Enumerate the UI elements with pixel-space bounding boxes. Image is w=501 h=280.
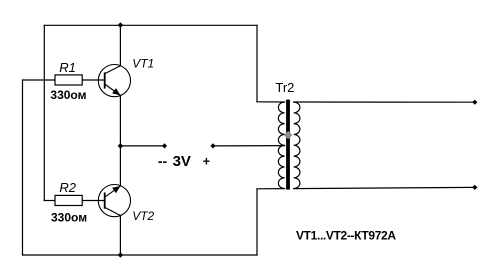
wire R2 left horizontal: [44, 200, 55, 202]
svg-text:+: +: [203, 155, 210, 169]
wire right vertical to Tr2 primary top: [256, 25, 258, 102]
transistor VT1 collector lead: [105, 66, 121, 74]
transistor VT1 base bar: [104, 72, 106, 88]
node grey junction on core: [284, 131, 293, 139]
wire R2 to VT2 base: [82, 200, 105, 202]
node output terminal top: [472, 100, 477, 105]
wire stub Tr2 primary bottom: [257, 188, 285, 190]
wire top horizontal (VT1 collector rail): [44, 24, 257, 26]
svg-text:--: --: [158, 153, 168, 169]
wire VT2 emitter vertical: [119, 146, 121, 186]
transformer Tr2 primary winding: [278, 102, 284, 189]
transistor VT2 body circle: [98, 185, 130, 217]
transistor VT2: [98, 185, 130, 217]
transistor VT1 emitter lead: [105, 84, 121, 96]
svg-text:VT1: VT1: [132, 57, 154, 71]
svg-text:330ом: 330ом: [51, 210, 87, 224]
transistor VT1 body circle: [98, 65, 130, 97]
transistor VT2 emitter lead: [105, 186, 121, 197]
wire secondary bottom output: [294, 187, 475, 188]
wire secondary top output: [294, 101, 475, 103]
wire stub Tr2 primary top: [257, 101, 285, 103]
resistor R2: [55, 195, 82, 205]
wire left vertical feedback (to R2): [43, 25, 45, 200]
node junction middle (emitters / battery): [118, 143, 124, 149]
node junction bottom (collector VT2 / rail): [118, 252, 124, 258]
wire R1 left horizontal: [23, 79, 56, 81]
transistor VT1 emitter arrow: [112, 88, 120, 95]
transistor VT2 emitter arrow: [112, 186, 120, 193]
wire right vertical from Tr2 primary bottom: [256, 189, 258, 255]
node junction top (collector VT1 / rail): [118, 22, 124, 28]
node output terminal bottom: [472, 185, 477, 190]
transistor VT1: [98, 65, 130, 97]
wire bottom horizontal (VT2 collector rail): [23, 254, 258, 256]
wire VT1 collector vertical: [119, 25, 121, 65]
transistor VT2 base bar: [104, 193, 106, 209]
transformer Tr2 core bar: [286, 100, 290, 190]
wire battery plus lead to Tr2 centre tap: [213, 145, 285, 147]
node battery minus terminal: [162, 143, 167, 148]
svg-text:3V: 3V: [173, 153, 191, 170]
svg-text:VT2: VT2: [132, 209, 154, 223]
svg-text:VT1...VT2--КТ972А: VT1...VT2--КТ972А: [296, 229, 396, 243]
transistor VT2 collector lead: [105, 207, 121, 215]
wire battery minus lead: [120, 145, 164, 147]
svg-text:330ом: 330ом: [50, 88, 86, 102]
svg-text:R2: R2: [59, 180, 76, 195]
wire VT1 emitter vertical: [119, 96, 121, 146]
svg-text:Tr2: Tr2: [275, 80, 294, 95]
node battery plus terminal: [210, 143, 215, 148]
resistor R1: [55, 75, 82, 85]
transformer Tr2 secondary winding: [294, 102, 300, 189]
wire R1 to VT1 base: [82, 79, 105, 81]
svg-text:R1: R1: [59, 60, 76, 75]
wire VT2 collector vertical: [119, 216, 121, 256]
wire far-left vertical feedback (to R1): [22, 80, 24, 255]
